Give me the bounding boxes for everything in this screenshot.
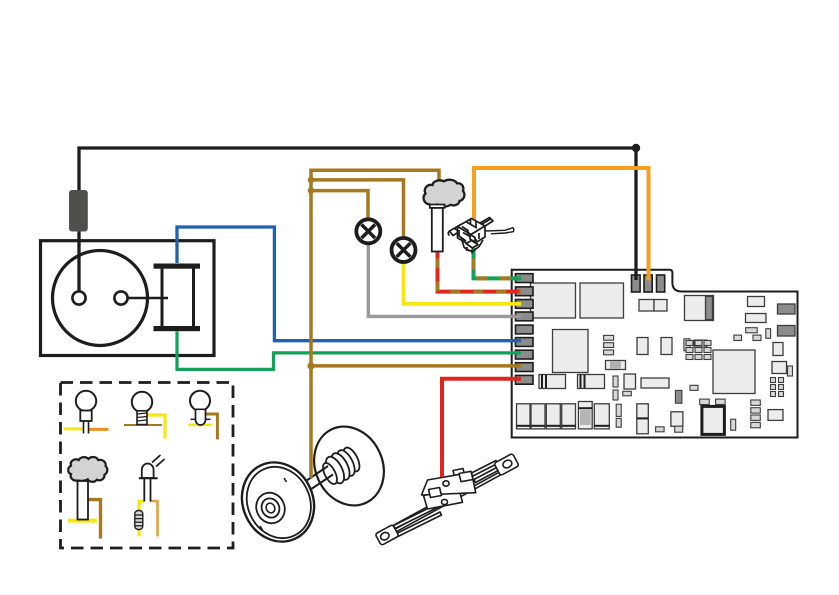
wire green (coil to decoder pin7) [177,332,521,370]
field coil [154,264,201,332]
wire brown main (vertical bus to wheel axle) [311,170,439,478]
decoder small SMD parts [604,328,793,433]
motor M1 box [41,241,215,356]
wire green-brown striped (actuator to decoder pin1) [474,248,522,278]
wire brown branch to lamp1 [311,191,368,221]
wire yellow (lamp2 to decoder pin3) [404,263,522,304]
legend LED with resistor [135,455,165,537]
choke L1 [69,190,88,232]
legend bulb B3 [188,391,217,440]
node black junction [632,144,640,152]
node brown junction 2 [308,187,315,194]
wire black (motor brush to decoder top pad) [79,148,636,292]
wheelset [229,415,396,553]
pickup shoe (isometric) [375,453,519,545]
wire terminal to field coil [128,297,169,300]
decoder capacitor row bottom [517,402,610,429]
wire red (decoder pin9 to pickup shoe) [442,379,521,477]
decoder left solder pads (9) [516,274,534,384]
wire brown branch to lamp2 [311,180,404,238]
smoke generator S1 tube [430,205,445,252]
smoke generator S1 cloud [424,180,465,207]
lamp E1 [356,219,380,243]
wire red-brown striped (smoke generator to decoder pin2) [438,253,522,292]
motor brush terminal right [114,291,127,304]
legend bulb B1 [64,391,109,434]
wire blue (coil to decoder pin6) [177,227,521,341]
lamp E2 [392,238,416,262]
decoder top solder pads [632,275,665,292]
decoder resistor end bars [542,375,648,418]
node brown junction 3 [307,362,314,369]
node brown junction 1 [308,177,315,184]
wire gray (lamp1 to decoder pin4) [368,244,521,316]
dashed legend box [61,383,234,549]
legend bulb B2 (screw base) [124,392,165,439]
decoder components [531,283,796,434]
legend smoke generator [68,457,107,538]
wire brown branch to decoder pin8 [311,364,521,368]
decoder PCB outline [512,270,798,438]
motor rotor circle [53,251,148,346]
motor brush terminal left [72,291,85,304]
wire orange (decoder top pad to actuator) [474,168,649,281]
actuator (pickup changeover part, isometric) [448,218,514,254]
